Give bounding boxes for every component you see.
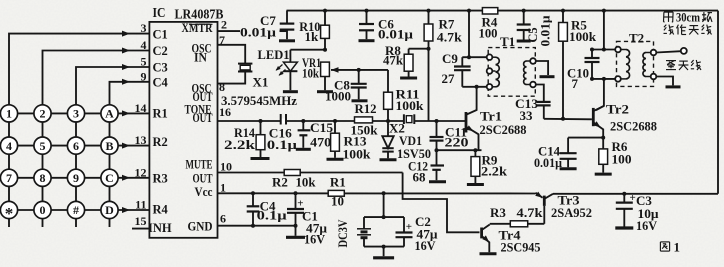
node R5 Tr2 base <box>561 117 565 121</box>
ground T1 secondary <box>540 75 555 78</box>
resistor R2 <box>284 170 300 176</box>
ground C12 <box>429 180 446 183</box>
svg-text:2: 2 <box>40 107 46 121</box>
wire keypad column 2 to pin <box>43 51 150 228</box>
capacitor C12 <box>431 164 445 166</box>
wire Vcc line <box>218 192 536 194</box>
keypad button 0 <box>34 201 51 218</box>
svg-text:2.2k: 2.2k <box>224 137 256 152</box>
node C10 top <box>590 48 594 52</box>
svg-text:1000: 1000 <box>325 89 351 104</box>
node C4 top <box>251 191 255 195</box>
ground battery <box>373 256 394 259</box>
node top rail R10 <box>323 9 327 13</box>
svg-text:DC3V: DC3V <box>336 220 350 248</box>
capacitor C7 <box>286 11 288 24</box>
label figure 1 <box>660 241 669 243</box>
svg-text:OUT: OUT <box>193 171 213 185</box>
capacitor C8 <box>358 70 360 84</box>
svg-text:T1: T1 <box>500 34 515 49</box>
svg-text:MUTE: MUTE <box>186 157 213 171</box>
ground C7 <box>279 39 295 42</box>
capacitor C9 <box>461 57 463 66</box>
keypad button 5 <box>34 137 51 154</box>
svg-text:2: 2 <box>221 18 227 32</box>
svg-text:LED1: LED1 <box>258 47 290 62</box>
capacitor C2 <box>403 217 405 232</box>
node R13 <box>333 119 337 123</box>
keypad button 6 <box>67 137 84 154</box>
wire battery drop <box>383 193 385 217</box>
svg-text:4: 4 <box>141 38 147 52</box>
svg-text:Vcc: Vcc <box>195 185 213 199</box>
node C1 GND <box>294 224 298 228</box>
ground LED1 <box>283 90 298 93</box>
wire R7 to R8 <box>409 48 429 50</box>
ground C3 <box>615 226 633 229</box>
resistor R6 <box>602 138 604 149</box>
svg-text:2SA952: 2SA952 <box>551 205 592 220</box>
svg-text:C4: C4 <box>153 76 169 90</box>
capacitor C5 <box>523 11 525 25</box>
wire T2 sec to ground <box>656 77 673 86</box>
svg-text:GND: GND <box>188 220 213 234</box>
ground R6 <box>595 173 612 176</box>
svg-text:T2: T2 <box>629 31 644 46</box>
node emitter R9 <box>473 148 477 152</box>
wire rail to T1 <box>468 11 470 58</box>
svg-text:OUT: OUT <box>193 111 213 125</box>
keypad button 9 <box>67 169 84 186</box>
ground R8 <box>400 77 417 80</box>
svg-text:+: + <box>630 192 636 204</box>
wire Tr2 emitter node <box>568 137 603 139</box>
capacitor C4 <box>252 193 254 206</box>
resistor R3 <box>510 221 527 227</box>
svg-text:10k: 10k <box>302 66 320 81</box>
svg-text:1: 1 <box>674 240 681 255</box>
svg-text:14: 14 <box>135 101 147 115</box>
resistor R14 <box>260 121 262 135</box>
svg-text:5: 5 <box>40 139 46 153</box>
resistor R5 <box>562 11 564 23</box>
svg-text:47k: 47k <box>383 53 404 68</box>
svg-text:C9: C9 <box>442 51 458 66</box>
node top rail R7 <box>427 9 431 13</box>
svg-text:2SC2688: 2SC2688 <box>610 119 657 134</box>
svg-text:100: 100 <box>479 25 498 40</box>
capacitor C3 <box>623 194 625 203</box>
svg-text:XMTR: XMTR <box>182 21 214 35</box>
svg-text:1: 1 <box>6 107 12 121</box>
wire LED anode <box>290 49 325 51</box>
potentiometer VR1 <box>321 62 330 76</box>
transistor Q4 Tr4 <box>480 228 483 239</box>
svg-text:9: 9 <box>141 69 147 83</box>
transistor Q3 Tr3 <box>543 196 546 206</box>
svg-text:150k: 150k <box>351 122 379 137</box>
svg-text:16V: 16V <box>415 238 437 253</box>
svg-text:*: * <box>5 204 14 223</box>
keypad button 7 <box>0 169 17 186</box>
svg-text:A: A <box>105 107 114 121</box>
XMTR overline <box>189 23 213 25</box>
capacitor C1 <box>295 193 297 209</box>
svg-text:IC: IC <box>153 5 166 20</box>
node top rail R5 <box>561 9 565 13</box>
capacitor C6 <box>366 11 368 24</box>
svg-text:68: 68 <box>413 170 427 185</box>
svg-text:8: 8 <box>40 171 46 185</box>
node emitter C11 C12 <box>435 148 439 152</box>
node C3 <box>622 192 626 196</box>
svg-text:R2: R2 <box>272 174 288 189</box>
ground C1 <box>286 236 305 239</box>
capacitor C16 <box>281 119 285 124</box>
svg-text:2SC2688: 2SC2688 <box>480 122 527 137</box>
svg-text:30cm: 30cm <box>676 10 700 25</box>
svg-text:R4: R4 <box>153 203 169 217</box>
resistor R11 <box>384 92 393 109</box>
wire VR1 wiper to R11 <box>351 69 388 71</box>
svg-text:9: 9 <box>73 171 79 185</box>
svg-text:4.7k: 4.7k <box>437 29 463 44</box>
transformer T2 box <box>617 41 654 86</box>
capacitor C14 <box>567 138 569 154</box>
svg-text:INH: INH <box>148 221 172 235</box>
svg-text:C3: C3 <box>153 61 168 75</box>
node C4 bottom <box>251 224 255 228</box>
svg-text:2SC945: 2SC945 <box>501 240 541 255</box>
transistor Q2 Tr2 <box>592 108 595 126</box>
svg-text:16V: 16V <box>304 231 326 246</box>
wire T2 bottom <box>592 78 615 80</box>
svg-text:27: 27 <box>442 71 456 86</box>
node battery bottom <box>382 245 386 249</box>
svg-text:3: 3 <box>73 107 79 121</box>
svg-text:B: B <box>105 139 113 153</box>
wire keypad column 1 to pin <box>9 34 149 227</box>
wire T2 top <box>592 49 615 51</box>
ground VD1 <box>380 158 397 161</box>
antenna terminal <box>681 48 687 54</box>
resistor R13 <box>334 121 336 133</box>
svg-text:16V: 16V <box>636 218 658 233</box>
svg-text:X1: X1 <box>253 75 269 90</box>
ground C15 <box>296 148 311 151</box>
svg-text:7: 7 <box>572 76 579 91</box>
node Tr1 collector <box>475 85 479 89</box>
svg-text:33: 33 <box>520 108 534 123</box>
node top rail C6 <box>365 9 369 13</box>
keypad button B <box>101 137 118 154</box>
T2 secondary coil <box>646 52 650 54</box>
svg-text:C7: C7 <box>260 13 276 28</box>
label antenna note <box>663 12 665 22</box>
svg-text:7: 7 <box>6 171 12 185</box>
node C11 <box>435 119 439 123</box>
node battery top <box>382 215 386 219</box>
node C15 <box>301 119 305 123</box>
wire keypad row 2 to pin <box>1 145 149 147</box>
ground VR1 <box>317 90 333 93</box>
svg-text:100k: 100k <box>569 29 597 44</box>
keypad button A <box>101 105 118 122</box>
wire INH stub <box>132 228 149 230</box>
svg-text:100k: 100k <box>396 98 425 113</box>
svg-text:X2: X2 <box>389 121 405 136</box>
wire keypad row 4 to pin <box>1 209 149 211</box>
svg-text:R3: R3 <box>490 205 506 220</box>
capacitor C15 <box>302 121 304 130</box>
op-amp U1 IC LR4087B box <box>149 22 217 238</box>
svg-text:R1: R1 <box>330 175 346 190</box>
resistor R9 <box>474 150 476 156</box>
svg-text:0.01μ: 0.01μ <box>534 155 563 170</box>
wire antenna <box>656 51 681 52</box>
ground R13 <box>327 158 344 161</box>
node T2 top <box>602 48 606 52</box>
battery DC3V <box>363 217 365 229</box>
wire T1 sec bottom <box>536 85 544 102</box>
node R14 <box>259 119 263 123</box>
node LED1 VR1 R10 <box>323 48 327 52</box>
svg-text:R3: R3 <box>153 172 168 186</box>
wire R3 left to Tr4 collector <box>490 223 511 225</box>
wire pin8 OSC OUT <box>218 72 246 84</box>
keypad button # <box>67 201 84 218</box>
wire GND line <box>218 225 296 227</box>
svg-text:C: C <box>105 171 114 185</box>
svg-text:3: 3 <box>141 21 147 35</box>
ground C8 <box>352 99 368 102</box>
keypad button 8 <box>34 169 51 186</box>
T2 primary coil <box>621 49 626 51</box>
svg-text:0.01μ: 0.01μ <box>539 16 553 47</box>
svg-text:IN: IN <box>194 51 207 65</box>
svg-text:3.579545MHz: 3.579545MHz <box>221 93 297 108</box>
svg-text:10k: 10k <box>296 174 317 189</box>
capacitor C13 <box>537 101 551 103</box>
ground C5 <box>517 40 531 43</box>
keypad button 1 <box>0 105 17 122</box>
svg-text:15: 15 <box>135 214 147 228</box>
node T2 bottom <box>602 77 606 81</box>
svg-text:1k: 1k <box>305 29 320 44</box>
wire Tr2 collector <box>596 79 604 110</box>
svg-text:C1: C1 <box>153 28 168 42</box>
node C8 <box>357 68 361 72</box>
wire pin2 XMTR <box>218 30 241 32</box>
resistor R10 <box>324 11 326 26</box>
keypad button 2 <box>34 105 51 122</box>
resistor R1 <box>328 190 344 196</box>
ground Tr4 <box>480 252 497 255</box>
crystal X2 <box>404 117 414 123</box>
svg-text:C2: C2 <box>153 44 168 58</box>
svg-text:2.2k: 2.2k <box>481 163 508 178</box>
wire R7 to oscillator node <box>428 49 430 121</box>
svg-text:10: 10 <box>220 159 232 173</box>
node R7 R8 <box>427 47 431 51</box>
capacitor C11 <box>436 121 438 137</box>
crystal X1 <box>238 63 252 65</box>
svg-text:100k: 100k <box>343 147 372 162</box>
wire MUTE to Tr4 <box>403 173 480 233</box>
svg-text:220: 220 <box>445 134 469 149</box>
svg-text:13: 13 <box>135 133 147 147</box>
LED LED1 <box>283 62 297 71</box>
varactor VD1 <box>387 121 389 136</box>
node C1 top <box>294 191 298 195</box>
wire battery branch top <box>364 216 404 218</box>
node Tr2 emitter <box>601 136 605 140</box>
svg-text:R12: R12 <box>355 101 377 116</box>
resistor R12 <box>355 117 373 123</box>
svg-text:R2: R2 <box>153 135 168 149</box>
resistor R4 <box>482 8 497 14</box>
transistor Q1 Tr1 <box>465 112 468 133</box>
svg-text:Tr2: Tr2 <box>606 101 629 116</box>
svg-text:470: 470 <box>310 135 331 150</box>
wire top supply rail <box>287 10 719 12</box>
svg-text:4.7k: 4.7k <box>517 205 544 220</box>
svg-text:4: 4 <box>6 139 12 153</box>
wire rail to T2 <box>603 11 605 50</box>
wire keypad column 4 to pin <box>110 82 150 227</box>
keypad button 3 <box>67 105 84 122</box>
wire battery branch bottom <box>364 246 404 248</box>
resistor R8 <box>404 54 413 71</box>
T1 secondary terminals <box>530 58 536 64</box>
node top rail T2 drop <box>602 9 606 13</box>
svg-text:0.1μ: 0.1μ <box>267 137 298 152</box>
T2 primary terminals <box>615 47 621 53</box>
wire Tr1 emitter node <box>437 149 482 151</box>
wire R3 right <box>528 223 545 225</box>
svg-text:D: D <box>105 203 114 217</box>
T1 primary terminals <box>487 54 493 60</box>
svg-text:100: 100 <box>612 151 632 166</box>
wire MUTE OUT <box>218 172 403 174</box>
keypad button D <box>101 201 118 218</box>
svg-text:12: 12 <box>135 165 147 179</box>
transformer T1 box <box>488 48 535 97</box>
ground T2 secondary <box>666 85 681 88</box>
svg-text:C10: C10 <box>567 66 589 81</box>
T1 secondary coil <box>527 60 531 62</box>
wire collector rail <box>553 193 718 195</box>
resistor R7 <box>428 11 430 24</box>
wire T1 sec top to ground <box>536 61 548 75</box>
svg-text:6: 6 <box>220 212 226 226</box>
svg-text:11: 11 <box>135 198 146 212</box>
wire keypad row 3 to pin <box>1 177 149 179</box>
node top rail C5 <box>522 9 526 13</box>
wire T1 bottom <box>462 86 486 88</box>
ground R9 <box>467 183 484 186</box>
wire C13 to Tr2 base <box>544 118 592 121</box>
node C10 bottom <box>590 77 594 81</box>
T2 secondary terminals <box>651 50 657 56</box>
wire keypad column 3 to pin <box>76 67 149 227</box>
keypad button 4 <box>0 137 17 154</box>
node battery tap <box>382 191 386 195</box>
wire battery to ground <box>383 247 385 257</box>
keypad button C <box>101 169 118 186</box>
svg-text:5: 5 <box>141 55 147 69</box>
svg-text:0.1μ: 0.1μ <box>257 208 288 223</box>
ground R14 <box>251 157 270 160</box>
ground C14 <box>560 167 577 170</box>
svg-text:LR4087B: LR4087B <box>175 7 224 22</box>
svg-text:10: 10 <box>331 194 344 209</box>
svg-text:0: 0 <box>40 203 46 217</box>
svg-text:0.01μ: 0.01μ <box>378 26 414 41</box>
svg-text:6: 6 <box>73 139 79 153</box>
capacitor C10 <box>591 50 593 59</box>
wire keypad row 1 to pin <box>1 112 149 114</box>
wire T1 top <box>462 56 486 58</box>
node top rail T1 drop <box>467 9 471 13</box>
svg-text:R1: R1 <box>153 107 168 121</box>
node R11 VD1 <box>386 119 390 123</box>
wire TONE OUT line <box>218 120 466 122</box>
wire pin7 OSC IN <box>218 45 246 64</box>
node T1 top <box>467 55 471 59</box>
keypad button * <box>0 201 17 218</box>
ground C6 <box>359 39 375 42</box>
wire Tr3 base <box>543 206 545 224</box>
T1 primary coil <box>492 56 495 58</box>
svg-text:#: # <box>73 203 79 217</box>
svg-text:+: + <box>406 221 412 233</box>
